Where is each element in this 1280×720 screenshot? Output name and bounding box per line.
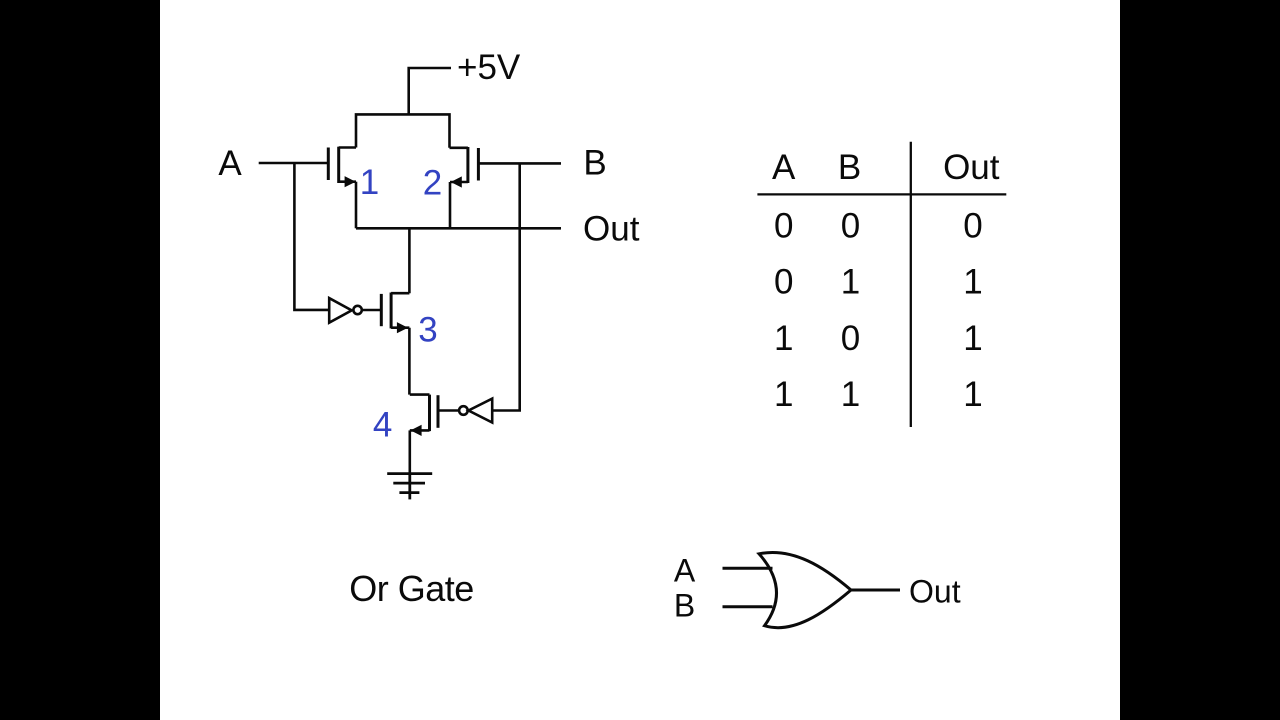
wire: A branch down to inverter U1 input xyxy=(294,163,329,310)
svg-text:1: 1 xyxy=(963,263,982,302)
wire: Q4 source down to ground xyxy=(408,430,411,473)
truth table row 3: 1 0 -> 1 xyxy=(774,319,983,358)
node: Out rail xyxy=(356,227,561,230)
wire: or-gate input A xyxy=(723,567,773,570)
svg-text:0: 0 xyxy=(841,319,860,358)
ground xyxy=(387,474,432,500)
svg-text:0: 0 xyxy=(774,263,793,302)
svg-text:4: 4 xyxy=(373,405,392,444)
wire: Out rail down to Q3 drain xyxy=(408,228,411,293)
wire: or-gate output xyxy=(851,589,900,592)
svg-text:1: 1 xyxy=(360,163,379,202)
wire: Q4 gate to inverter U2 bubble xyxy=(438,409,459,412)
+5V supply stub xyxy=(409,68,451,114)
truth table row 2: 0 1 -> 1 xyxy=(774,263,983,302)
svg-text:Or Gate: Or Gate xyxy=(349,568,474,609)
transistor Q1 xyxy=(328,147,356,188)
letterbox bar left xyxy=(0,0,160,720)
wire: VDD rail to Q1/Q2 drains xyxy=(356,114,450,147)
inverter U2 xyxy=(459,399,492,423)
wire: Q1 source down to Out rail xyxy=(355,182,358,229)
wire: B branch down to inverter U2 output side xyxy=(492,163,520,410)
transistor Q3 xyxy=(381,293,409,334)
transistor Q4 xyxy=(410,395,438,436)
svg-text:B: B xyxy=(674,587,695,623)
truth table divider vertical xyxy=(910,142,912,427)
letterbox bar right xyxy=(1120,0,1280,720)
svg-text:1: 1 xyxy=(774,319,793,358)
svg-text:1: 1 xyxy=(963,375,982,414)
truth table header underline xyxy=(757,193,1006,195)
svg-text:B: B xyxy=(583,144,606,183)
svg-text:+5V: +5V xyxy=(457,48,521,87)
svg-text:A: A xyxy=(218,144,242,183)
wire: Q3 source down to Q4 drain xyxy=(408,328,411,395)
svg-text:Out: Out xyxy=(943,148,1000,187)
svg-text:1: 1 xyxy=(963,319,982,358)
wire: or-gate input B xyxy=(723,605,773,608)
svg-text:A: A xyxy=(772,148,796,187)
svg-text:2: 2 xyxy=(423,164,442,203)
svg-text:Out: Out xyxy=(909,574,961,610)
svg-text:3: 3 xyxy=(418,311,437,350)
svg-text:1: 1 xyxy=(841,375,860,414)
svg-text:Out: Out xyxy=(583,210,640,249)
transistor Q2 xyxy=(450,147,479,188)
wire: input A to gate of Q1 xyxy=(259,162,329,165)
wire: input B to gate of Q2 xyxy=(478,162,561,165)
svg-text:0: 0 xyxy=(774,207,793,246)
svg-text:0: 0 xyxy=(841,207,860,246)
truth table row 1: 0 0 -> 0 xyxy=(774,207,983,246)
svg-text:0: 0 xyxy=(963,207,982,246)
wire: U1 output to Q3 gate xyxy=(362,309,381,312)
inverter U1 xyxy=(329,298,362,323)
or-gate symbol body xyxy=(759,552,851,627)
wire: Q2 source down to Out rail xyxy=(449,182,452,228)
svg-text:1: 1 xyxy=(841,263,860,302)
svg-text:B: B xyxy=(838,148,861,187)
svg-text:1: 1 xyxy=(774,375,793,414)
truth table row 4: 1 1 -> 1 xyxy=(774,375,983,414)
svg-text:A: A xyxy=(674,552,696,588)
